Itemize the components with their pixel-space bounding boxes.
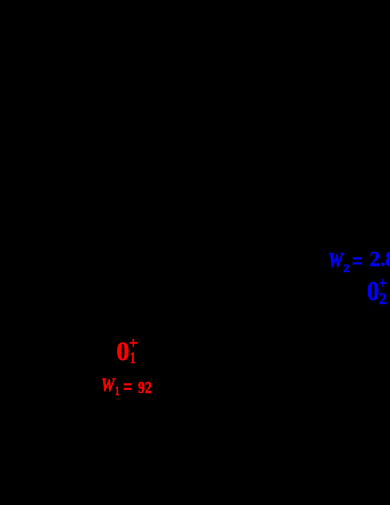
red subscript 1 of 0_1 — [130, 351, 136, 367]
red state label 0 — [116, 339, 129, 365]
blue superscript + of 0_2 — [379, 276, 387, 292]
blue value 2.8 (right-clipped) — [370, 249, 390, 270]
blue label W_2 (italic W) — [328, 250, 343, 271]
red value 92 — [138, 379, 152, 396]
blue equals sign — [352, 249, 363, 274]
red equals sign — [123, 376, 132, 399]
blue state label 0 — [367, 278, 379, 305]
red superscript + of 0_1 — [129, 336, 138, 352]
blue subscript 2 of W_2 — [343, 262, 349, 274]
red subscript 1 of W_1 — [115, 385, 119, 397]
blue subscript 2 of 0_2 — [379, 292, 387, 308]
red label W_1 (italic W) — [101, 376, 115, 395]
